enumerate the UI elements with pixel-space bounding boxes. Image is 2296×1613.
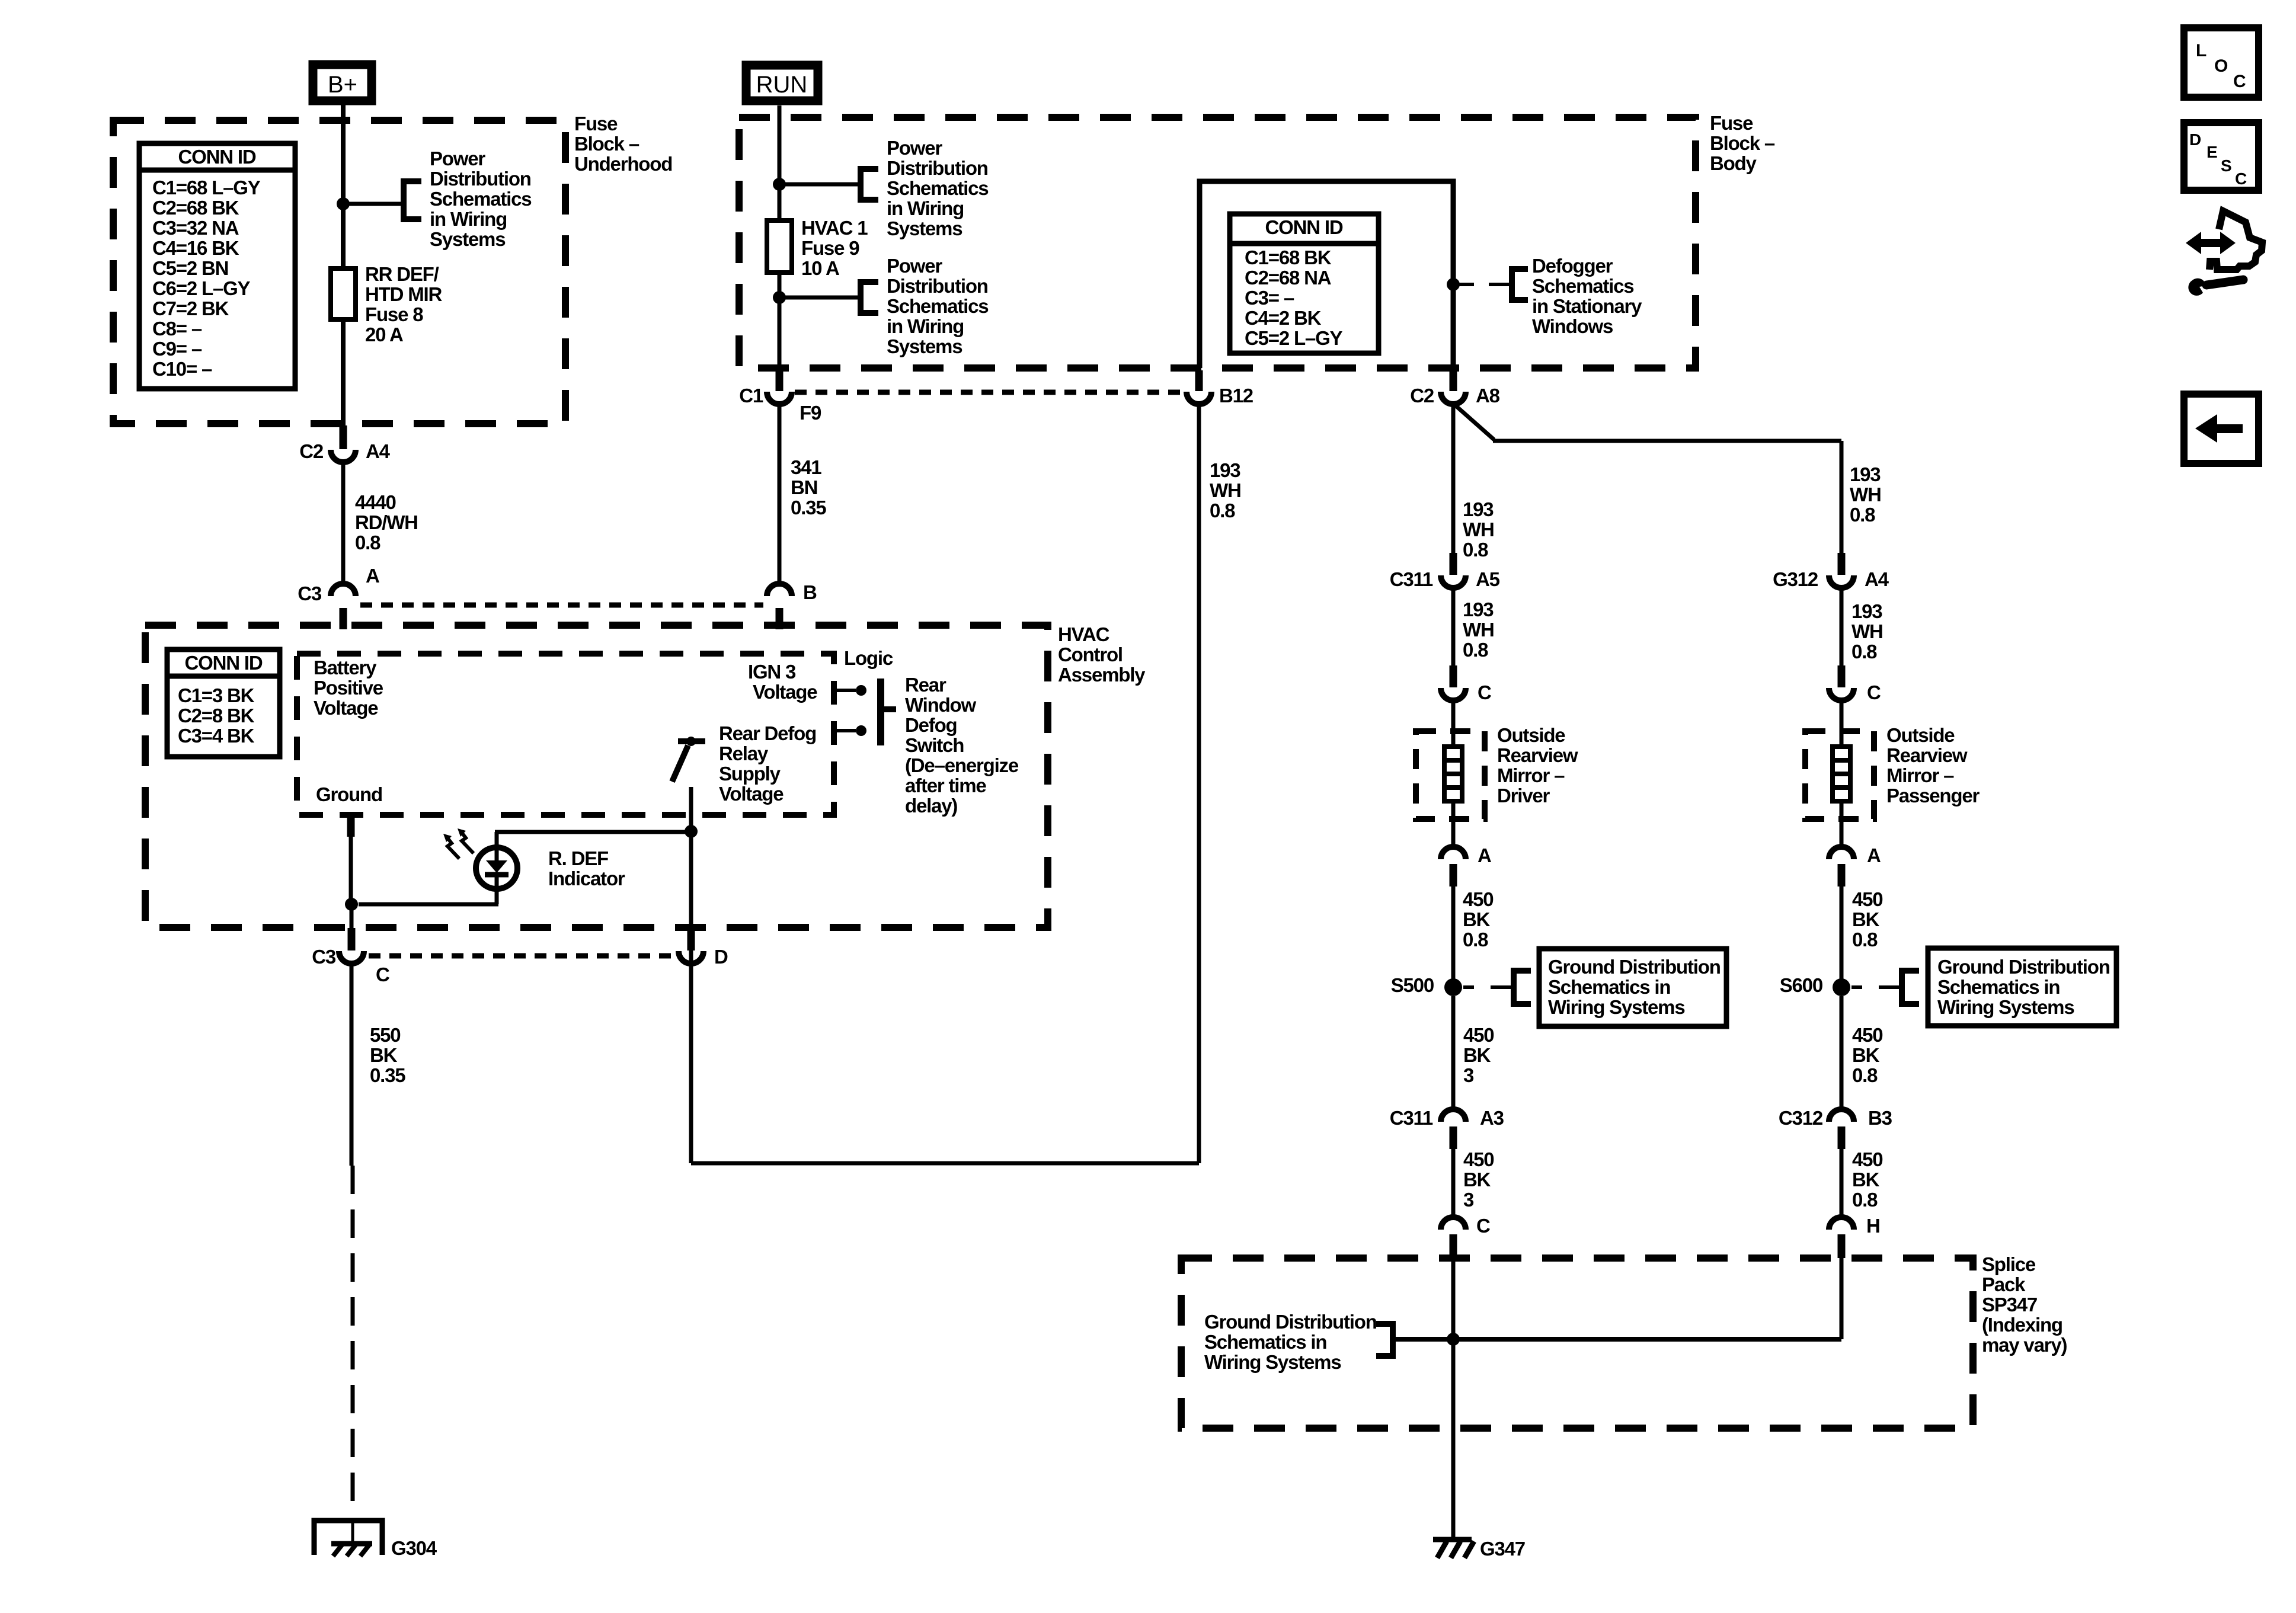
label wire 450 BK 0.8 driver bbox=[1463, 888, 1493, 950]
junction node RUN branch 2 bbox=[773, 291, 786, 304]
svg-text:C3=4 BK: C3=4 BK bbox=[178, 725, 255, 747]
svg-text:Rearview: Rearview bbox=[1497, 744, 1578, 766]
wire driver into splice pack bbox=[1451, 1257, 1456, 1540]
connector C passenger mirror bbox=[1829, 665, 1881, 703]
connector A passenger bbox=[1829, 844, 1881, 886]
label splice pack SP347 bbox=[1982, 1253, 2067, 1356]
junction node RUN branch 1 bbox=[773, 178, 786, 191]
dotted connector group line C3 bbox=[360, 603, 763, 608]
svg-text:C4=2 BK: C4=2 BK bbox=[1245, 307, 1322, 329]
wire B+ down to fuse 8 bbox=[341, 105, 346, 270]
svg-text:A4: A4 bbox=[366, 440, 391, 462]
svg-text:BN: BN bbox=[791, 476, 817, 498]
svg-text:C3= –: C3= – bbox=[1245, 287, 1294, 309]
svg-text:BK: BK bbox=[370, 1044, 398, 1066]
junction node defogger ref bbox=[1447, 278, 1460, 291]
svg-text:0.35: 0.35 bbox=[370, 1064, 405, 1086]
reference bracket power distribution body 2 bbox=[861, 282, 878, 313]
connector C311 pin A3 bbox=[1390, 1107, 1504, 1149]
svg-text:Distribution: Distribution bbox=[430, 168, 531, 190]
svg-text:C312: C312 bbox=[1779, 1107, 1823, 1129]
splice pack SP347 dashed box bbox=[1181, 1258, 1973, 1428]
wire 193 WH B12 leg bbox=[691, 405, 1199, 1163]
wire S500 down bbox=[1451, 996, 1456, 1108]
svg-text:A3: A3 bbox=[1480, 1107, 1504, 1129]
reference bracket power distribution underhood bbox=[404, 181, 421, 219]
label wire 193 WH 0.8 passenger lower bbox=[1851, 600, 1883, 663]
svg-text:450: 450 bbox=[1852, 888, 1882, 910]
svg-text:S600: S600 bbox=[1780, 974, 1822, 996]
label wire 4440 RD/WH 0.8 bbox=[355, 491, 418, 553]
icon LOC box bbox=[2184, 28, 2259, 97]
svg-text:0.8: 0.8 bbox=[355, 532, 380, 553]
svg-text:Schematics in: Schematics in bbox=[1937, 976, 2060, 998]
svg-text:G304: G304 bbox=[391, 1537, 437, 1559]
svg-text:Positive: Positive bbox=[314, 677, 383, 699]
svg-text:Splice: Splice bbox=[1982, 1253, 2036, 1275]
label ground bbox=[316, 783, 382, 805]
splice S500 bbox=[1391, 974, 1462, 996]
svg-text:Battery: Battery bbox=[314, 657, 377, 679]
wire H into splice pack bbox=[1840, 1257, 1844, 1339]
connector C2 pin A4 bbox=[299, 425, 390, 462]
connector C312 pin B3 bbox=[1779, 1107, 1892, 1149]
label power distribution schematics body 1 bbox=[887, 137, 988, 239]
connector D bbox=[679, 928, 728, 968]
svg-text:0.8: 0.8 bbox=[1850, 504, 1875, 526]
svg-text:A: A bbox=[1867, 844, 1881, 866]
svg-text:Fuse: Fuse bbox=[1710, 112, 1753, 134]
label power distribution schematics underhood bbox=[430, 148, 531, 250]
relay contact bbox=[672, 737, 705, 782]
wire 450 BK 3 lower bbox=[1451, 1148, 1456, 1216]
connector C311 pin A5 bbox=[1390, 553, 1500, 590]
svg-text:C: C bbox=[1476, 1215, 1490, 1237]
svg-text:Voltage: Voltage bbox=[314, 697, 378, 719]
junction node splice pack bbox=[1447, 1333, 1460, 1346]
svg-text:Ground Distribution: Ground Distribution bbox=[1548, 956, 1721, 978]
svg-text:Wiring Systems: Wiring Systems bbox=[1548, 996, 1684, 1018]
svg-text:S: S bbox=[2221, 156, 2231, 175]
wire into driver mirror bbox=[1451, 702, 1456, 748]
svg-text:Pack: Pack bbox=[1982, 1273, 2026, 1295]
svg-text:Switch: Switch bbox=[905, 734, 964, 756]
svg-text:Outside: Outside bbox=[1886, 724, 1955, 746]
svg-text:Schematics in: Schematics in bbox=[1548, 976, 1670, 998]
CONN ID table body bbox=[1230, 214, 1379, 353]
splice S600 bbox=[1780, 974, 1850, 996]
svg-text:Window: Window bbox=[905, 694, 976, 716]
svg-text:Supply: Supply bbox=[719, 763, 781, 785]
svg-text:BK: BK bbox=[1852, 908, 1880, 930]
CONN ID table HVAC bbox=[167, 649, 280, 757]
label defogger schematics bbox=[1532, 255, 1642, 337]
svg-text:CONN ID: CONN ID bbox=[1265, 216, 1343, 238]
svg-text:Schematics: Schematics bbox=[887, 177, 988, 199]
svg-text:BK: BK bbox=[1463, 1044, 1491, 1066]
svg-text:S500: S500 bbox=[1391, 974, 1434, 996]
svg-text:193: 193 bbox=[1463, 599, 1494, 620]
svg-text:Fuse 8: Fuse 8 bbox=[365, 303, 423, 325]
svg-text:C10= –: C10= – bbox=[152, 358, 212, 380]
svg-text:Rear: Rear bbox=[905, 674, 946, 696]
switch lead IGN3 bbox=[837, 685, 866, 696]
svg-text:D: D bbox=[2189, 130, 2201, 149]
svg-text:Distribution: Distribution bbox=[887, 157, 988, 179]
connector A driver bbox=[1441, 844, 1491, 886]
connector B dome bbox=[767, 581, 817, 603]
svg-text:delay): delay) bbox=[905, 795, 957, 817]
wire passenger mirror to A bbox=[1840, 801, 1844, 846]
junction node B+ branch bbox=[337, 197, 350, 210]
label wire 193 WH 0.8 B12 bbox=[1210, 459, 1241, 521]
wire 550 BK dashed bbox=[351, 1166, 355, 1512]
svg-text:Rearview: Rearview bbox=[1886, 744, 1968, 766]
svg-text:193: 193 bbox=[1210, 459, 1240, 481]
svg-text:O: O bbox=[2214, 56, 2228, 76]
ground G347 bbox=[1433, 1538, 1525, 1560]
label wire 550 BK 0.35 bbox=[370, 1024, 405, 1086]
svg-text:A5: A5 bbox=[1476, 568, 1500, 590]
HVAC inner dashed box bbox=[297, 654, 834, 815]
svg-text:450: 450 bbox=[1463, 888, 1493, 910]
svg-text:in Stationary: in Stationary bbox=[1532, 295, 1642, 317]
svg-text:Systems: Systems bbox=[887, 335, 962, 357]
icon vehicle with arrow and wrench bbox=[2186, 211, 2262, 296]
svg-text:Voltage: Voltage bbox=[719, 783, 784, 805]
svg-text:E: E bbox=[2207, 143, 2217, 161]
svg-text:Ground: Ground bbox=[316, 783, 382, 805]
svg-text:RR DEF/: RR DEF/ bbox=[365, 263, 439, 285]
svg-text:20 A: 20 A bbox=[365, 324, 403, 345]
svg-text:3: 3 bbox=[1463, 1189, 1474, 1211]
heater element passenger bbox=[1833, 747, 1850, 801]
svg-text:C: C bbox=[1478, 681, 1491, 703]
svg-text:Power: Power bbox=[887, 137, 942, 159]
svg-text:D: D bbox=[714, 946, 728, 968]
svg-text:L: L bbox=[2196, 41, 2207, 60]
svg-text:C: C bbox=[2233, 72, 2246, 91]
svg-text:HVAC: HVAC bbox=[1058, 623, 1109, 645]
svg-text:Power: Power bbox=[887, 255, 942, 277]
svg-text:193: 193 bbox=[1850, 463, 1881, 485]
label wire 450 BK 3 lower bbox=[1463, 1148, 1494, 1211]
svg-text:C3=32 NA: C3=32 NA bbox=[152, 217, 239, 239]
label wire 450 BK 3 upper bbox=[1463, 1024, 1494, 1086]
wire 450 BK passenger lower bbox=[1840, 1148, 1844, 1216]
svg-text:HVAC 1: HVAC 1 bbox=[801, 217, 868, 239]
label wire 450 BK 0.8 low bbox=[1852, 1148, 1882, 1211]
svg-text:0.35: 0.35 bbox=[791, 497, 826, 519]
defogger relay solid outline bbox=[1200, 181, 1453, 368]
dotted connector group line C3 bottom bbox=[369, 953, 674, 959]
svg-text:A: A bbox=[366, 565, 379, 587]
svg-text:A8: A8 bbox=[1476, 385, 1500, 407]
svg-text:C5=2 L–GY: C5=2 L–GY bbox=[1245, 327, 1343, 349]
svg-text:(Indexing: (Indexing bbox=[1982, 1314, 2062, 1336]
svg-text:0.8: 0.8 bbox=[1852, 1064, 1878, 1086]
svg-text:G347: G347 bbox=[1480, 1538, 1525, 1560]
wire S600 down bbox=[1840, 996, 1844, 1108]
connector G312 pin A4 bbox=[1773, 553, 1889, 590]
wire branch to power distribution ref bbox=[343, 202, 404, 206]
junction node relay/indicator bbox=[685, 825, 698, 838]
terminal RUN box bbox=[746, 65, 818, 101]
wire 550 BK solid bbox=[350, 965, 354, 1166]
svg-text:C311: C311 bbox=[1390, 1107, 1433, 1129]
svg-text:Voltage: Voltage bbox=[753, 681, 817, 703]
wire 450 BK driver bbox=[1451, 885, 1456, 979]
wire S500 to ref bbox=[1463, 985, 1514, 989]
svg-text:C2: C2 bbox=[1410, 385, 1434, 407]
svg-text:450: 450 bbox=[1852, 1148, 1882, 1170]
wire to defogger ref bracket bbox=[1453, 283, 1512, 286]
svg-text:Systems: Systems bbox=[430, 228, 505, 250]
svg-text:Defogger: Defogger bbox=[1532, 255, 1613, 277]
HVAC control assembly dashed box bbox=[145, 625, 1048, 927]
svg-text:WH: WH bbox=[1850, 484, 1881, 505]
ground distribution box S600 bbox=[1928, 948, 2116, 1026]
ground G304 bbox=[314, 1521, 437, 1559]
rear window defog switch bar bbox=[881, 679, 896, 745]
svg-text:341: 341 bbox=[791, 456, 821, 478]
svg-text:Assembly: Assembly bbox=[1058, 664, 1146, 686]
connector H splice pack bbox=[1829, 1215, 1880, 1258]
svg-text:H: H bbox=[1866, 1215, 1880, 1237]
label fuse block underhood bbox=[574, 113, 672, 175]
label wire 193 WH 0.8 passenger top bbox=[1850, 463, 1881, 526]
svg-text:Ground Distribution: Ground Distribution bbox=[1204, 1311, 1377, 1333]
label wire 193 WH 0.8 driver lower bbox=[1463, 599, 1494, 661]
pin stub into HVAC battery lead bbox=[340, 608, 347, 629]
svg-text:BK: BK bbox=[1852, 1169, 1880, 1190]
outside rearview mirror passenger dashed box bbox=[1805, 731, 1874, 819]
wire 4440 RD/WH bbox=[341, 463, 346, 583]
svg-text:Logic: Logic bbox=[844, 647, 893, 669]
svg-text:C1=68 L–GY: C1=68 L–GY bbox=[152, 177, 261, 199]
wire into passenger mirror bbox=[1840, 702, 1844, 748]
svg-text:Rear Defog: Rear Defog bbox=[719, 722, 816, 744]
wire relay to pin D bbox=[689, 787, 693, 972]
label rear window defog switch bbox=[905, 674, 1019, 817]
svg-text:in Wiring: in Wiring bbox=[887, 197, 964, 219]
label logic bbox=[844, 647, 893, 669]
svg-text:RUN: RUN bbox=[756, 72, 808, 98]
reference bracket ground distribution S600 bbox=[1902, 971, 1919, 1004]
svg-text:Schematics in: Schematics in bbox=[1204, 1331, 1326, 1353]
wire 193 WH driver lower bbox=[1451, 589, 1456, 668]
svg-text:Underhood: Underhood bbox=[574, 153, 672, 175]
svg-text:Schematics: Schematics bbox=[887, 295, 988, 317]
svg-text:B3: B3 bbox=[1868, 1107, 1892, 1129]
wire 193 WH driver upper bbox=[1451, 405, 1456, 555]
svg-text:3: 3 bbox=[1463, 1064, 1474, 1086]
label wire 341 BN 0.35 bbox=[791, 456, 826, 519]
svg-text:Control: Control bbox=[1058, 644, 1123, 665]
svg-text:C9= –: C9= – bbox=[152, 338, 202, 360]
svg-text:WH: WH bbox=[1463, 519, 1494, 540]
connector C3 pin A dome bbox=[298, 565, 379, 604]
reference bracket SP347 bbox=[1376, 1324, 1393, 1356]
R. DEF indicator LED bbox=[476, 832, 517, 889]
svg-text:Defog: Defog bbox=[905, 714, 957, 736]
connector C driver mirror bbox=[1441, 665, 1491, 703]
svg-text:C2: C2 bbox=[299, 440, 324, 462]
icon DESC box bbox=[2184, 123, 2259, 190]
svg-text:0.8: 0.8 bbox=[1463, 539, 1488, 561]
svg-text:193: 193 bbox=[1463, 498, 1494, 520]
svg-text:Body: Body bbox=[1710, 152, 1757, 174]
svg-text:Block –: Block – bbox=[1710, 132, 1775, 154]
svg-text:4440: 4440 bbox=[355, 491, 396, 513]
reference bracket defogger schematics bbox=[1512, 269, 1528, 300]
label wire 193 WH 0.8 driver upper bbox=[1463, 498, 1494, 561]
svg-text:Wiring Systems: Wiring Systems bbox=[1204, 1351, 1341, 1373]
svg-text:WH: WH bbox=[1851, 620, 1883, 642]
svg-text:G312: G312 bbox=[1773, 568, 1818, 590]
svg-text:0.8: 0.8 bbox=[1210, 500, 1235, 521]
wire 341 BN bbox=[778, 405, 782, 583]
svg-text:0.8: 0.8 bbox=[1463, 639, 1488, 661]
label outside rearview mirror driver bbox=[1497, 724, 1578, 806]
fuse F8 RR DEF/HTD MIR bbox=[331, 268, 356, 319]
svg-text:Outside: Outside bbox=[1497, 724, 1565, 746]
svg-text:may vary): may vary) bbox=[1982, 1334, 2067, 1356]
svg-text:C1=3 BK: C1=3 BK bbox=[178, 684, 255, 706]
fuse block underhood dashed box bbox=[113, 120, 565, 424]
svg-text:Distribution: Distribution bbox=[887, 275, 988, 297]
svg-text:C8= –: C8= – bbox=[152, 318, 202, 340]
svg-text:A: A bbox=[1478, 844, 1491, 866]
svg-text:C: C bbox=[376, 964, 389, 985]
svg-text:BK: BK bbox=[1852, 1044, 1880, 1066]
wire branch to power distribution ref 1 bbox=[779, 183, 861, 187]
svg-text:Mirror –: Mirror – bbox=[1886, 764, 1954, 786]
svg-text:WH: WH bbox=[1463, 619, 1494, 641]
wire indicator top bbox=[495, 830, 689, 834]
svg-text:Power: Power bbox=[430, 148, 485, 169]
svg-text:in Wiring: in Wiring bbox=[430, 208, 507, 230]
label R. DEF indicator bbox=[548, 847, 625, 889]
wire splice pack bus bbox=[1393, 1337, 1841, 1342]
svg-text:Fuse: Fuse bbox=[574, 113, 618, 135]
svg-text:WH: WH bbox=[1210, 479, 1241, 501]
wire ground leg bbox=[351, 816, 351, 930]
svg-text:A4: A4 bbox=[1865, 568, 1889, 590]
svg-text:193: 193 bbox=[1851, 600, 1882, 622]
svg-text:0.8: 0.8 bbox=[1852, 929, 1878, 950]
wire fuse 8 to connector C2 bbox=[341, 319, 346, 428]
svg-text:Fuse 9: Fuse 9 bbox=[801, 237, 859, 259]
wire S600 to ref bbox=[1851, 985, 1902, 989]
svg-text:IGN 3: IGN 3 bbox=[748, 661, 796, 683]
svg-text:C3: C3 bbox=[312, 946, 336, 968]
svg-text:R. DEF: R. DEF bbox=[548, 847, 608, 869]
outside rearview mirror driver dashed box bbox=[1416, 731, 1485, 819]
connector C3 pin C bbox=[312, 928, 389, 985]
wire driver mirror to A bbox=[1451, 801, 1456, 846]
dotted connector group line C1-B12 bbox=[795, 390, 1184, 395]
svg-text:C5=2 BN: C5=2 BN bbox=[152, 257, 228, 279]
connector C2 pin A8 bbox=[1410, 370, 1499, 407]
svg-text:Wiring Systems: Wiring Systems bbox=[1937, 996, 2074, 1018]
wire branch to power distribution ref 2 bbox=[779, 296, 861, 300]
label rear defog relay supply voltage bbox=[719, 722, 816, 805]
label fuse 9 bbox=[801, 217, 868, 279]
svg-text:RD/WH: RD/WH bbox=[355, 511, 418, 533]
svg-text:450: 450 bbox=[1463, 1148, 1494, 1170]
connector B12 bbox=[1187, 370, 1253, 407]
svg-text:Schematics: Schematics bbox=[430, 188, 531, 210]
svg-text:450: 450 bbox=[1852, 1024, 1882, 1046]
svg-text:C1: C1 bbox=[739, 385, 763, 407]
terminal B+ box bbox=[313, 65, 372, 101]
svg-text:0.8: 0.8 bbox=[1851, 641, 1877, 663]
svg-text:0.8: 0.8 bbox=[1463, 929, 1488, 950]
svg-text:450: 450 bbox=[1463, 1024, 1494, 1046]
label ground distribution SP347 bbox=[1204, 1311, 1377, 1373]
svg-text:C: C bbox=[2235, 169, 2247, 188]
wire fuse 9 down bbox=[778, 273, 782, 369]
svg-text:Indicator: Indicator bbox=[548, 868, 625, 889]
svg-text:C7=2 BK: C7=2 BK bbox=[152, 297, 229, 319]
label fuse 8 bbox=[365, 263, 442, 345]
svg-text:BK: BK bbox=[1463, 908, 1491, 930]
svg-text:10 A: 10 A bbox=[801, 257, 839, 279]
junction node ground leg bbox=[345, 898, 358, 911]
svg-text:C3: C3 bbox=[298, 583, 322, 604]
svg-text:Passenger: Passenger bbox=[1886, 785, 1980, 806]
wire 193 WH passenger lower bbox=[1840, 589, 1844, 668]
reference bracket power distribution body 1 bbox=[861, 169, 878, 200]
svg-text:HTD MIR: HTD MIR bbox=[365, 283, 442, 305]
label HVAC control assembly bbox=[1058, 623, 1146, 686]
wire C2 A8 to passenger corner bbox=[1453, 404, 1841, 555]
switch lead relay bbox=[837, 725, 866, 736]
svg-text:C6=2 L–GY: C6=2 L–GY bbox=[152, 277, 251, 299]
svg-text:Block –: Block – bbox=[574, 133, 639, 155]
wire indicator bottom bbox=[359, 889, 498, 904]
svg-text:C2=8 BK: C2=8 BK bbox=[178, 705, 255, 727]
svg-text:(De–energize: (De–energize bbox=[905, 754, 1019, 776]
wire 450 BK passenger bbox=[1840, 885, 1844, 979]
svg-text:CONN ID: CONN ID bbox=[178, 146, 256, 168]
indicator light arrows bbox=[443, 828, 474, 859]
svg-text:C2=68 BK: C2=68 BK bbox=[152, 197, 239, 219]
reference bracket ground distribution S500 bbox=[1514, 971, 1531, 1004]
fuse block body dashed box bbox=[739, 117, 1696, 368]
icon back arrow box bbox=[2184, 394, 2259, 463]
svg-text:Driver: Driver bbox=[1497, 785, 1550, 806]
svg-text:550: 550 bbox=[370, 1024, 400, 1046]
svg-text:Windows: Windows bbox=[1532, 315, 1613, 337]
label wire 450 BK 0.8 passenger bbox=[1852, 888, 1882, 950]
label wire 450 BK 0.8 mid bbox=[1852, 1024, 1882, 1086]
svg-text:Relay: Relay bbox=[719, 743, 769, 764]
connector C1 pin F9 bbox=[739, 370, 821, 424]
svg-text:B: B bbox=[803, 581, 817, 603]
svg-text:BK: BK bbox=[1463, 1169, 1491, 1190]
svg-text:Mirror –: Mirror – bbox=[1497, 764, 1565, 786]
label fuse block body bbox=[1710, 112, 1775, 174]
heater element driver bbox=[1444, 747, 1462, 801]
svg-text:C: C bbox=[1867, 681, 1881, 703]
label IGN 3 voltage bbox=[748, 661, 817, 703]
svg-text:Systems: Systems bbox=[887, 217, 962, 239]
svg-text:C2=68 NA: C2=68 NA bbox=[1245, 267, 1331, 289]
svg-text:B+: B+ bbox=[328, 72, 357, 98]
svg-text:in Wiring: in Wiring bbox=[887, 315, 964, 337]
